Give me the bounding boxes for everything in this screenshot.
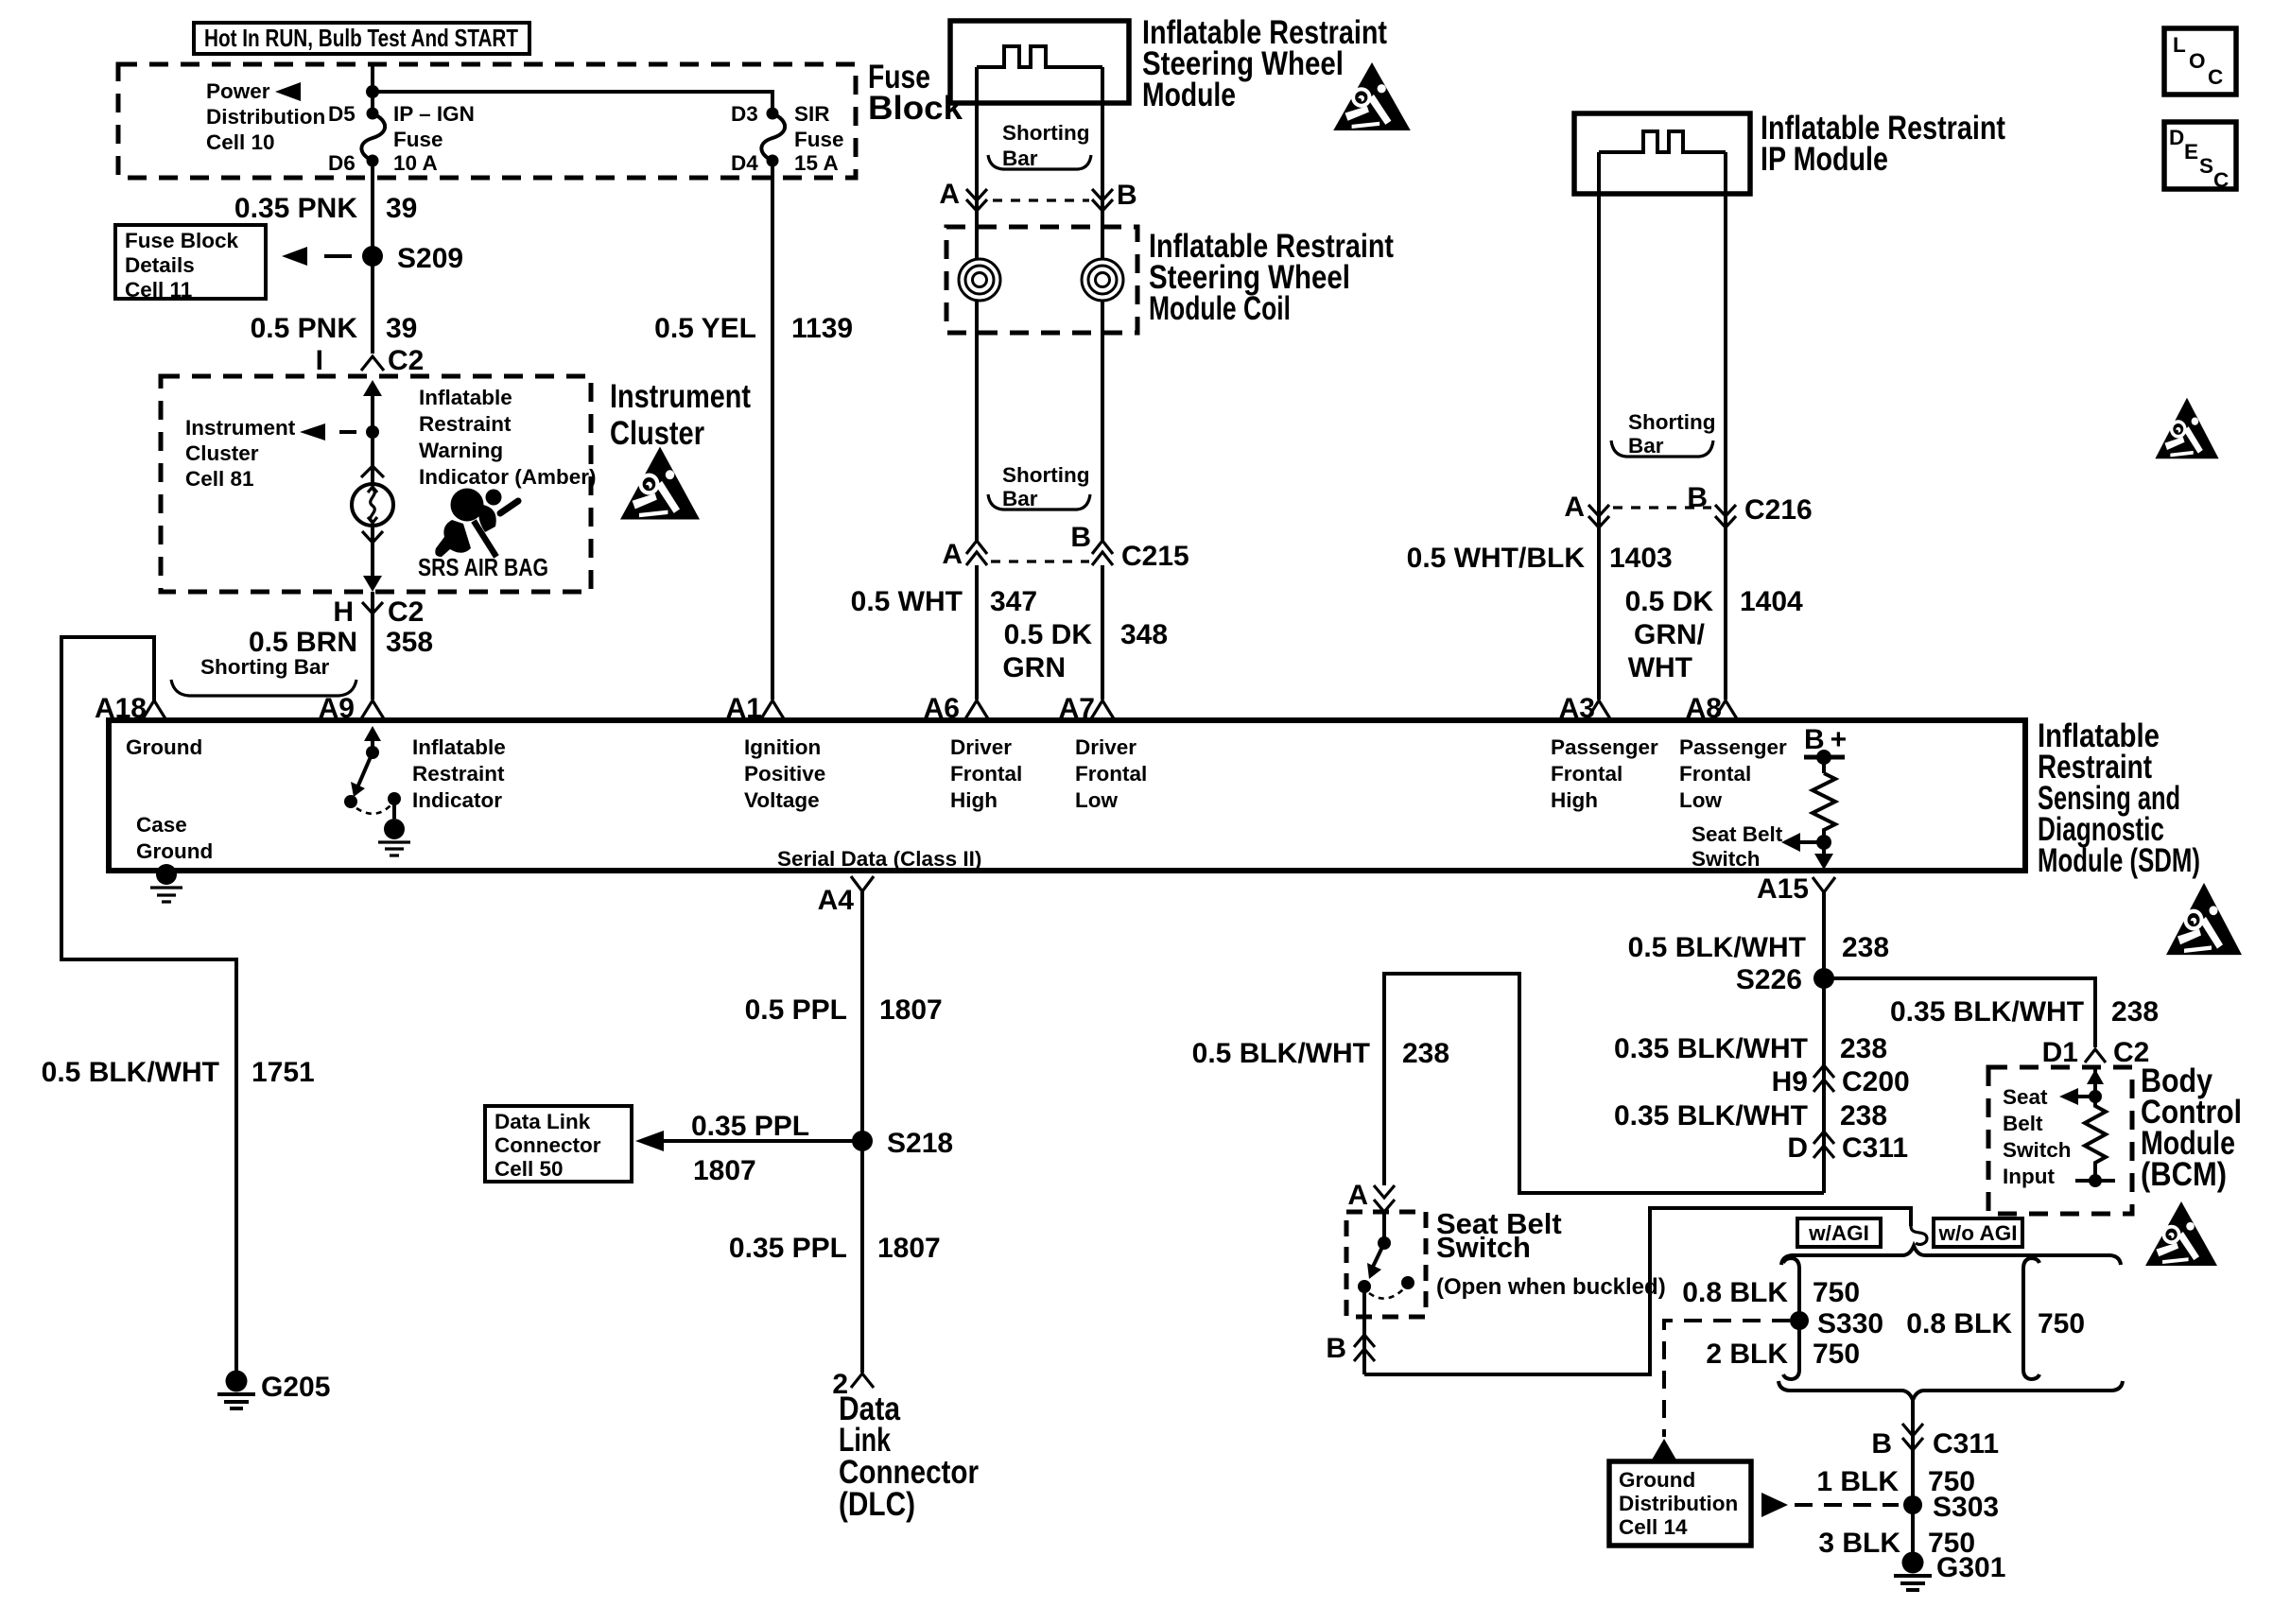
connector 2 DLC: [832, 1369, 874, 1400]
w/o AGI box: [1934, 1218, 2022, 1247]
wire 3 BLK 750: [1818, 1528, 1975, 1559]
pin label passenger frontal low: [1679, 735, 1787, 812]
header box Hot In RUN: [194, 23, 529, 54]
wire 0.5 WHT/BLK 1403: [1597, 527, 1601, 700]
pin label driver frontal low: [1075, 735, 1147, 812]
svg-text:0.5 BLK/WHT: 0.5 BLK/WHT: [42, 1057, 219, 1088]
svg-text:Shorting: Shorting: [1002, 463, 1089, 487]
svg-text:1 BLK: 1 BLK: [1816, 1466, 1899, 1497]
svg-text:Passenger: Passenger: [1679, 735, 1787, 759]
wire driver frontal low upper: [1101, 67, 1104, 218]
svg-text:L: L: [2173, 33, 2186, 57]
seat belt switch label: [1436, 1207, 1666, 1300]
svg-text:G205: G205: [261, 1372, 330, 1403]
svg-text:Cell 50: Cell 50: [495, 1157, 564, 1181]
svg-text:1807: 1807: [879, 994, 943, 1026]
svg-text:Input: Input: [2003, 1165, 2055, 1188]
svg-text:Cluster: Cluster: [185, 441, 259, 465]
svg-text:0.35 BLK/WHT: 0.35 BLK/WHT: [1614, 1100, 1808, 1132]
wire jog to seat belt switch: [1384, 974, 1824, 1193]
svg-text:Shorting Bar: Shorting Bar: [200, 655, 329, 679]
connector D C311: [1787, 1132, 1908, 1164]
svg-text:A: A: [1347, 1180, 1368, 1211]
svg-text:0.8 BLK: 0.8 BLK: [1906, 1308, 2012, 1339]
inflatable restraint IP module box: [1574, 113, 1750, 194]
svg-text:GRN/: GRN/: [1634, 619, 1706, 650]
brace bottom AGI: [1778, 1381, 2123, 1400]
connector A18: [95, 693, 166, 724]
node S330: [1790, 1311, 1809, 1330]
ground G301: [1894, 1552, 2005, 1591]
svg-text:Seat Belt: Seat Belt: [1692, 822, 1783, 846]
node S226: [1813, 968, 1834, 989]
connector C215 A: [942, 539, 987, 570]
wire 0.8 BLK 750 w/o AGI: [1906, 1308, 2085, 1339]
svg-text:Voltage: Voltage: [744, 788, 820, 812]
svg-text:Module: Module: [1142, 77, 1236, 113]
lamp indicator bulb: [352, 484, 393, 526]
ground distribution cell 14 box: [1609, 1461, 1751, 1546]
node S303: [1903, 1495, 1922, 1514]
connector I C2: [361, 356, 384, 371]
svg-text:Data Link: Data Link: [495, 1110, 591, 1133]
svg-text:Fuse: Fuse: [393, 128, 443, 151]
svg-text:I: I: [316, 345, 323, 376]
wire through coil right: [1101, 200, 1104, 541]
instrument cluster label: [610, 378, 751, 452]
svg-text:B: B: [1326, 1333, 1346, 1364]
connector A8: [1686, 693, 1738, 724]
esd symbol below SDM: [2166, 883, 2242, 955]
svg-text:D4: D4: [731, 151, 758, 175]
svg-text:Passenger: Passenger: [1551, 735, 1658, 759]
arrow to instrument cluster cell 81: [300, 423, 356, 441]
wire below lamp: [371, 526, 374, 588]
svg-text:Positive: Positive: [744, 762, 825, 786]
coil spiral left: [959, 259, 1000, 301]
wire 0.5 WHT 347: [975, 565, 979, 700]
arrow into cluster box bottom: [363, 576, 382, 592]
svg-text:Cell 11: Cell 11: [125, 278, 192, 302]
svg-text:C311: C311: [1842, 1132, 1908, 1164]
svg-text:GRN: GRN: [1002, 652, 1066, 683]
BCM label: [2141, 1063, 2242, 1193]
svg-text:IP – IGN: IP – IGN: [393, 102, 475, 126]
wire mate dashes C215: [991, 560, 1089, 562]
svg-text:High: High: [950, 788, 998, 812]
svg-text:Switch: Switch: [1436, 1231, 1531, 1264]
svg-text:Cell 14: Cell 14: [1619, 1515, 1688, 1539]
svg-text:0.5 BRN: 0.5 BRN: [249, 627, 357, 658]
svg-text:Frontal: Frontal: [1679, 762, 1751, 786]
seat belt switch dashed box: [1346, 1212, 1426, 1317]
svg-text:0.5 DK: 0.5 DK: [1004, 619, 1093, 650]
indicator switch inside SDM: [344, 726, 410, 855]
svg-text:Shorting: Shorting: [1628, 410, 1715, 434]
inflatable restraint steering wheel module box: [950, 21, 1129, 103]
fuse block label: [868, 59, 963, 127]
svg-text:C: C: [2208, 65, 2223, 89]
connector H9 C200: [1772, 1065, 1910, 1097]
svg-text:0.5 WHT/BLK: 0.5 WHT/BLK: [1407, 543, 1586, 574]
svg-text:238: 238: [1842, 932, 1889, 963]
connector seat belt B: [1326, 1287, 1375, 1374]
svg-text:Low: Low: [1679, 788, 1722, 812]
svg-text:Belt: Belt: [2003, 1112, 2043, 1135]
shorting bar steering upper: [988, 121, 1091, 170]
svg-text:C2: C2: [388, 596, 424, 628]
BCM pin text: [2003, 1085, 2072, 1188]
shorting bar steering lower: [988, 463, 1090, 510]
svg-text:C2: C2: [388, 345, 424, 376]
svg-text:39: 39: [386, 313, 417, 344]
wire power branch: [373, 92, 772, 113]
svg-text:0.5 BLK/WHT: 0.5 BLK/WHT: [1192, 1038, 1370, 1069]
svg-text:0.5 WHT: 0.5 WHT: [851, 586, 963, 617]
svg-text:D: D: [2169, 126, 2184, 149]
wire indicator feed arrow: [363, 380, 382, 432]
svg-text:1807: 1807: [693, 1155, 756, 1186]
wire seat belt B to AGI braces: [1364, 1208, 1911, 1374]
svg-text:238: 238: [1840, 1033, 1887, 1064]
DESC box: [2164, 122, 2236, 192]
wire 0.35 PPL 1807 lower: [729, 1233, 941, 1264]
steering wheel module label: [1142, 14, 1387, 113]
wire passenger frontal low upper: [1724, 152, 1727, 556]
svg-text:0.5 PNK: 0.5 PNK: [251, 313, 358, 344]
svg-text:Bar: Bar: [1002, 487, 1038, 510]
svg-text:39: 39: [386, 193, 417, 224]
svg-text:0.35 BLK/WHT: 0.35 BLK/WHT: [1890, 996, 2084, 1028]
svg-text:Distribution: Distribution: [1619, 1492, 1738, 1515]
connector C216 B: [1687, 482, 1812, 527]
svg-text:0.5 PPL: 0.5 PPL: [745, 994, 847, 1026]
svg-text:B: B: [1070, 522, 1091, 553]
svg-text:Frontal: Frontal: [950, 762, 1022, 786]
svg-text:Distribution: Distribution: [206, 105, 325, 129]
svg-text:S226: S226: [1736, 964, 1802, 995]
svg-text:Low: Low: [1075, 788, 1118, 812]
pin label ignition positive voltage: [744, 735, 825, 812]
connector A4: [818, 876, 874, 916]
svg-text:SIR: SIR: [794, 102, 830, 126]
svg-text:C215: C215: [1121, 541, 1189, 572]
fuse SIR D3 D4: [761, 108, 785, 167]
wire 0.5 DK GRN/WHT 1404: [1724, 527, 1727, 700]
svg-text:Module (SDM): Module (SDM): [2038, 842, 2200, 879]
connector B C311 lower: [1871, 1424, 1999, 1460]
wire main feed: [371, 64, 374, 113]
svg-text:(Open when buckled): (Open when buckled): [1436, 1274, 1666, 1300]
svg-text:347: 347: [990, 586, 1037, 617]
svg-text:Cell 10: Cell 10: [206, 130, 275, 154]
svg-text:750: 750: [2038, 1308, 2085, 1339]
wire 0.5 PPL 1807: [745, 994, 943, 1026]
wire brace to C311: [1911, 1400, 1915, 1460]
svg-text:358: 358: [386, 627, 433, 658]
dashed wire S330 to ground distribution: [1664, 1321, 1790, 1437]
connector C215 B: [1070, 522, 1189, 572]
wire 0.35 BLK/WHT 238 branch right: [1890, 996, 2159, 1028]
svg-text:Indicator: Indicator: [412, 788, 502, 812]
body control module dashed box: [1988, 1067, 2132, 1214]
svg-text:O: O: [2189, 49, 2206, 73]
esd symbol steering wheel module: [1333, 62, 1411, 130]
svg-text:S330: S330: [1817, 1308, 1883, 1339]
svg-text:0.35 PPL: 0.35 PPL: [729, 1233, 847, 1264]
svg-text:Switch: Switch: [1692, 847, 1761, 871]
svg-text:750: 750: [1813, 1277, 1860, 1308]
svg-text:Driver: Driver: [950, 735, 1012, 759]
wire serial data to DLC: [860, 891, 864, 1373]
svg-text:High: High: [1551, 788, 1598, 812]
shorting bar IP module: [1611, 410, 1715, 458]
svg-text:10 A: 10 A: [393, 151, 438, 175]
inflatable restraint warning indicator label: [419, 386, 597, 489]
fuse IP-IGN D5 D6: [361, 108, 385, 167]
svg-text:Switch: Switch: [2003, 1138, 2072, 1162]
connector A9: [319, 693, 385, 724]
connector A6: [924, 693, 989, 724]
svg-text:0.35 PPL: 0.35 PPL: [691, 1111, 809, 1142]
svg-text:C216: C216: [1744, 494, 1813, 526]
svg-text:D3: D3: [731, 102, 758, 126]
connector H C2: [333, 592, 424, 700]
svg-text:Power: Power: [206, 79, 270, 103]
wire 0.8 BLK 750 wAGI: [1682, 1277, 1860, 1308]
instrument cluster cell 81 label: [185, 416, 296, 491]
connector A steering: [939, 179, 987, 211]
wire 0.35 BLK/WHT 238 above C200: [1614, 1033, 1887, 1064]
wire mate dashes steering: [993, 199, 1089, 201]
svg-text:15 A: 15 A: [794, 151, 839, 175]
svg-text:Ignition: Ignition: [744, 735, 821, 759]
shorting bar A9: [171, 655, 356, 696]
svg-text:0.8 BLK: 0.8 BLK: [1682, 1277, 1788, 1308]
wire passenger frontal high upper: [1597, 152, 1601, 556]
srs air bag icon: [435, 489, 518, 558]
wire 2 BLK 750 wAGI: [1706, 1339, 1860, 1370]
fuse block dashed box: [118, 64, 856, 178]
arrow into ground distribution: [1651, 1439, 1677, 1461]
node S209: [362, 246, 383, 267]
arrow to power distribution: [275, 82, 301, 101]
svg-text:C: C: [2213, 168, 2229, 192]
SDM label: [2038, 717, 2200, 879]
svg-text:Fuse: Fuse: [794, 128, 844, 151]
wire S226 to BCM: [1824, 978, 2095, 1047]
wire 1 BLK 750: [1911, 1460, 1915, 1558]
svg-text:Cluster: Cluster: [610, 415, 704, 452]
svg-text:Seat: Seat: [2003, 1085, 2048, 1109]
svg-text:Fuse Block: Fuse Block: [125, 229, 239, 252]
svg-text:0.35 BLK/WHT: 0.35 BLK/WHT: [1614, 1033, 1808, 1064]
svg-text:Driver: Driver: [1075, 735, 1136, 759]
svg-text:750: 750: [1813, 1339, 1860, 1370]
svg-text:B: B: [1871, 1428, 1892, 1460]
seat belt switch input inside BCM: [2059, 1067, 2115, 1187]
svg-text:Shorting: Shorting: [1002, 121, 1089, 145]
seat belt switch label inside SDM: [1692, 822, 1783, 871]
data link connector cell 50 box: [485, 1106, 632, 1182]
bracket w/o AGI wire: [2023, 1258, 2039, 1379]
connector A1: [726, 693, 785, 724]
svg-text:A15: A15: [1757, 873, 1809, 905]
svg-text:1404: 1404: [1740, 586, 1803, 617]
node indicator tap: [366, 425, 379, 439]
node power tap: [366, 85, 379, 98]
esd symbol instrument cluster: [620, 447, 700, 520]
wire through coil left: [975, 200, 979, 541]
svg-text:3 BLK: 3 BLK: [1818, 1528, 1900, 1559]
svg-text:1139: 1139: [791, 313, 853, 344]
svg-text:E: E: [2184, 140, 2198, 164]
svg-text:Bar: Bar: [1002, 147, 1038, 170]
connector D1 C2: [2042, 1037, 2150, 1068]
svg-text:IP Module: IP Module: [1761, 141, 1888, 178]
svg-text:Restraint: Restraint: [419, 412, 512, 436]
connector A3: [1559, 693, 1611, 724]
svg-text:H9: H9: [1772, 1066, 1808, 1097]
steering wheel module coil label: [1149, 228, 1394, 327]
svg-text:238: 238: [1402, 1038, 1449, 1069]
wire to lamp: [371, 432, 374, 484]
svg-text:0.35 PNK: 0.35 PNK: [234, 193, 357, 224]
wire mate dashes C216: [1613, 506, 1711, 509]
wire 0.5 BLK/WHT 238 below A15: [1628, 932, 1889, 963]
pin label driver frontal high: [950, 735, 1022, 812]
svg-text:D6: D6: [328, 151, 356, 175]
svg-text:A: A: [1564, 492, 1585, 523]
wire driver frontal high upper: [975, 67, 979, 218]
svg-text:S218: S218: [887, 1128, 953, 1159]
svg-text:S209: S209: [397, 243, 463, 274]
svg-text:Details: Details: [125, 253, 195, 277]
power distribution cell 10 label: [206, 79, 325, 154]
svg-text:H: H: [333, 596, 354, 628]
svg-text:Serial Data (Class II): Serial Data (Class II): [777, 847, 981, 871]
svg-text:D5: D5: [328, 102, 356, 126]
svg-text:Ground: Ground: [126, 735, 202, 759]
seat belt switch contacts: [1358, 1212, 1414, 1299]
svg-text:Inflatable: Inflatable: [412, 735, 506, 759]
wire 0.5 DK GRN 348: [1101, 565, 1104, 700]
connector seat belt A: [1347, 1180, 1395, 1212]
svg-text:348: 348: [1120, 619, 1168, 650]
wire 0.35 PNK 39: [371, 161, 374, 354]
connector chevron above lamp: [361, 466, 384, 477]
svg-text:0.5 BLK/WHT: 0.5 BLK/WHT: [1628, 932, 1806, 963]
svg-text:S: S: [2199, 154, 2213, 178]
connector B steering: [1092, 180, 1137, 211]
svg-text:Case: Case: [136, 813, 187, 837]
steering wheel module coil dashed box: [946, 227, 1137, 333]
coil spiral right: [1082, 259, 1123, 301]
svg-text:238: 238: [2111, 996, 2159, 1028]
dashed arrow ground distribution to S303: [1761, 1493, 1899, 1517]
wire 0.5 YEL 1139: [771, 161, 774, 700]
wire 0.35 PPL 1807 to data link connector: [635, 1111, 862, 1186]
svg-text:A: A: [939, 179, 960, 210]
svg-text:(DLC): (DLC): [839, 1486, 915, 1523]
esd symbol below BCM: [2145, 1201, 2217, 1266]
svg-text:A4: A4: [818, 885, 855, 916]
arrow to fuse block details: [282, 247, 352, 266]
pin label inflatable restraint indicator: [412, 735, 506, 812]
svg-text:D: D: [1787, 1132, 1808, 1164]
brace top AGI: [1781, 1246, 2121, 1265]
svg-text:C200: C200: [1842, 1066, 1910, 1097]
svg-text:Frontal: Frontal: [1551, 762, 1622, 786]
w/AGI box: [1797, 1218, 1881, 1247]
SDM module box: [109, 720, 2025, 871]
svg-text:Module Coil: Module Coil: [1149, 290, 1291, 327]
svg-text:Ground: Ground: [136, 839, 213, 863]
svg-text:Instrument: Instrument: [185, 416, 296, 440]
svg-text:Instrument: Instrument: [610, 378, 751, 415]
ground G205: [217, 1371, 330, 1409]
svg-text:Bar: Bar: [1628, 434, 1664, 458]
wire A18 to G205: [61, 637, 236, 1373]
svg-text:(BCM): (BCM): [2141, 1156, 2227, 1193]
svg-text:Warning: Warning: [419, 439, 503, 462]
case ground inside SDM: [136, 813, 213, 902]
svg-text:238: 238: [1840, 1100, 1887, 1132]
svg-text:1807: 1807: [877, 1233, 941, 1264]
svg-text:Ground: Ground: [1619, 1468, 1695, 1492]
bracket w/AGI wire: [1783, 1258, 1799, 1379]
LOC box: [2164, 28, 2236, 95]
svg-text:2 BLK: 2 BLK: [1706, 1339, 1788, 1370]
connector A15: [1757, 873, 1835, 905]
connector A7: [1059, 693, 1115, 724]
svg-text:S303: S303: [1933, 1492, 1999, 1523]
svg-text:C311: C311: [1933, 1428, 1999, 1460]
wire 0.35 BLK/WHT 238 above C311: [1614, 1100, 1887, 1132]
svg-text:0.5 YEL: 0.5 YEL: [654, 313, 756, 344]
esd symbol right of IP module: [2155, 398, 2218, 458]
svg-text:Restraint: Restraint: [412, 762, 505, 786]
wire 0.5 BLK/WHT 238 seat belt feed: [1192, 1038, 1449, 1069]
svg-text:A: A: [942, 539, 963, 570]
svg-text:Connector: Connector: [495, 1133, 601, 1157]
svg-text:Indicator (Amber): Indicator (Amber): [419, 465, 597, 489]
svg-text:B: B: [1117, 180, 1137, 211]
svg-text:Inflatable: Inflatable: [419, 386, 512, 409]
B+ node and resistor inside SDM: [1781, 724, 1847, 870]
svg-text:D1: D1: [2042, 1037, 2078, 1068]
svg-text:Hot In RUN, Bulb Test And STAR: Hot In RUN, Bulb Test And START: [204, 24, 518, 52]
svg-text:Frontal: Frontal: [1075, 762, 1147, 786]
wire 0.5 BLK/WHT 1751: [42, 1057, 315, 1088]
fuse block details box: [115, 225, 266, 302]
connector Y below lamp: [362, 531, 383, 543]
IP module label: [1761, 110, 2005, 178]
svg-text:1403: 1403: [1609, 543, 1673, 574]
wire A15 to S226: [1822, 892, 1826, 1193]
svg-text:0.5 DK: 0.5 DK: [1625, 586, 1714, 617]
wire squiggle into brace: [1911, 1226, 1927, 1244]
connector C216 A: [1564, 492, 1609, 527]
svg-text:w/AGI: w/AGI: [1808, 1221, 1869, 1245]
svg-text:G301: G301: [1936, 1552, 2005, 1583]
svg-text:WHT: WHT: [1628, 652, 1692, 683]
node S218: [852, 1131, 873, 1151]
svg-text:1751: 1751: [252, 1057, 315, 1088]
pin label passenger frontal high: [1551, 735, 1658, 812]
svg-text:w/o AGI: w/o AGI: [1938, 1221, 2018, 1245]
data link connector DLC label: [839, 1391, 979, 1523]
